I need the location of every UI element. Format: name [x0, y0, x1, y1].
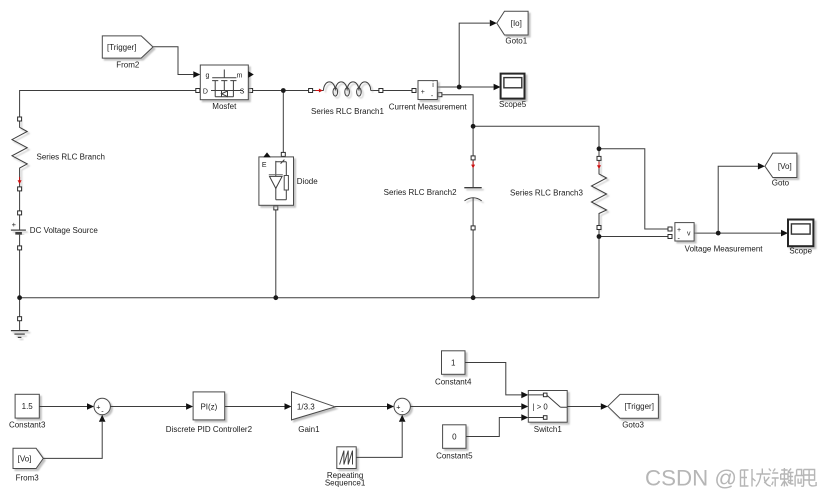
svg-text:From3: From3: [16, 473, 40, 482]
svg-text:Voltage Measurement: Voltage Measurement: [685, 245, 764, 254]
svg-text:g: g: [206, 72, 210, 79]
svg-text:1.5: 1.5: [22, 402, 34, 411]
svg-text:+: +: [96, 402, 100, 411]
svg-text:+: +: [421, 89, 425, 96]
svg-text:S: S: [240, 88, 245, 95]
svg-text:Mosfet: Mosfet: [212, 102, 237, 111]
svg-text:D: D: [203, 88, 208, 95]
svg-text:Series RLC Branch3: Series RLC Branch3: [510, 188, 583, 197]
svg-text:Discrete PID Controller2: Discrete PID Controller2: [166, 425, 253, 434]
svg-text:From2: From2: [116, 61, 140, 70]
svg-text:[Trigger]: [Trigger]: [107, 43, 137, 52]
svg-text:[Vo]: [Vo]: [778, 162, 792, 171]
svg-text:Current Measurement: Current Measurement: [389, 102, 468, 111]
svg-text:Constant4: Constant4: [435, 378, 472, 387]
svg-text:1/3.3: 1/3.3: [297, 402, 315, 411]
svg-text:Switch1: Switch1: [534, 425, 563, 434]
svg-text:Sequence1: Sequence1: [325, 479, 366, 488]
svg-text:m: m: [237, 72, 243, 79]
svg-text:[Io]: [Io]: [511, 19, 522, 28]
svg-text:+: +: [396, 402, 400, 411]
svg-text:Goto1: Goto1: [505, 37, 527, 46]
svg-text:[Trigger]: [Trigger]: [624, 402, 654, 411]
svg-text:+: +: [677, 227, 681, 234]
svg-text:+: +: [12, 220, 17, 229]
svg-text:DC Voltage Source: DC Voltage Source: [30, 226, 99, 235]
svg-text:Series RLC Branch: Series RLC Branch: [37, 152, 105, 161]
svg-text:Constant5: Constant5: [436, 452, 473, 461]
svg-text:0: 0: [452, 432, 457, 441]
svg-text:Constant3: Constant3: [9, 421, 46, 430]
svg-text:Diode: Diode: [297, 177, 318, 186]
svg-text:Goto3: Goto3: [622, 421, 644, 430]
svg-text:Series RLC Branch2: Series RLC Branch2: [384, 188, 457, 197]
svg-text:Series RLC Branch1: Series RLC Branch1: [311, 107, 384, 116]
svg-text:Scope5: Scope5: [499, 100, 527, 109]
svg-text:v: v: [687, 230, 691, 237]
svg-text:| > 0: | > 0: [533, 402, 549, 411]
svg-text:PI(z): PI(z): [200, 402, 217, 411]
svg-text:E: E: [262, 162, 267, 169]
svg-text:1: 1: [451, 358, 456, 367]
svg-text:CSDN @: CSDN @: [645, 466, 737, 491]
svg-text:Scope: Scope: [789, 247, 812, 256]
svg-text:Gain1: Gain1: [298, 425, 320, 434]
svg-text:Goto: Goto: [772, 179, 790, 188]
svg-text:[Vo]: [Vo]: [18, 454, 32, 463]
